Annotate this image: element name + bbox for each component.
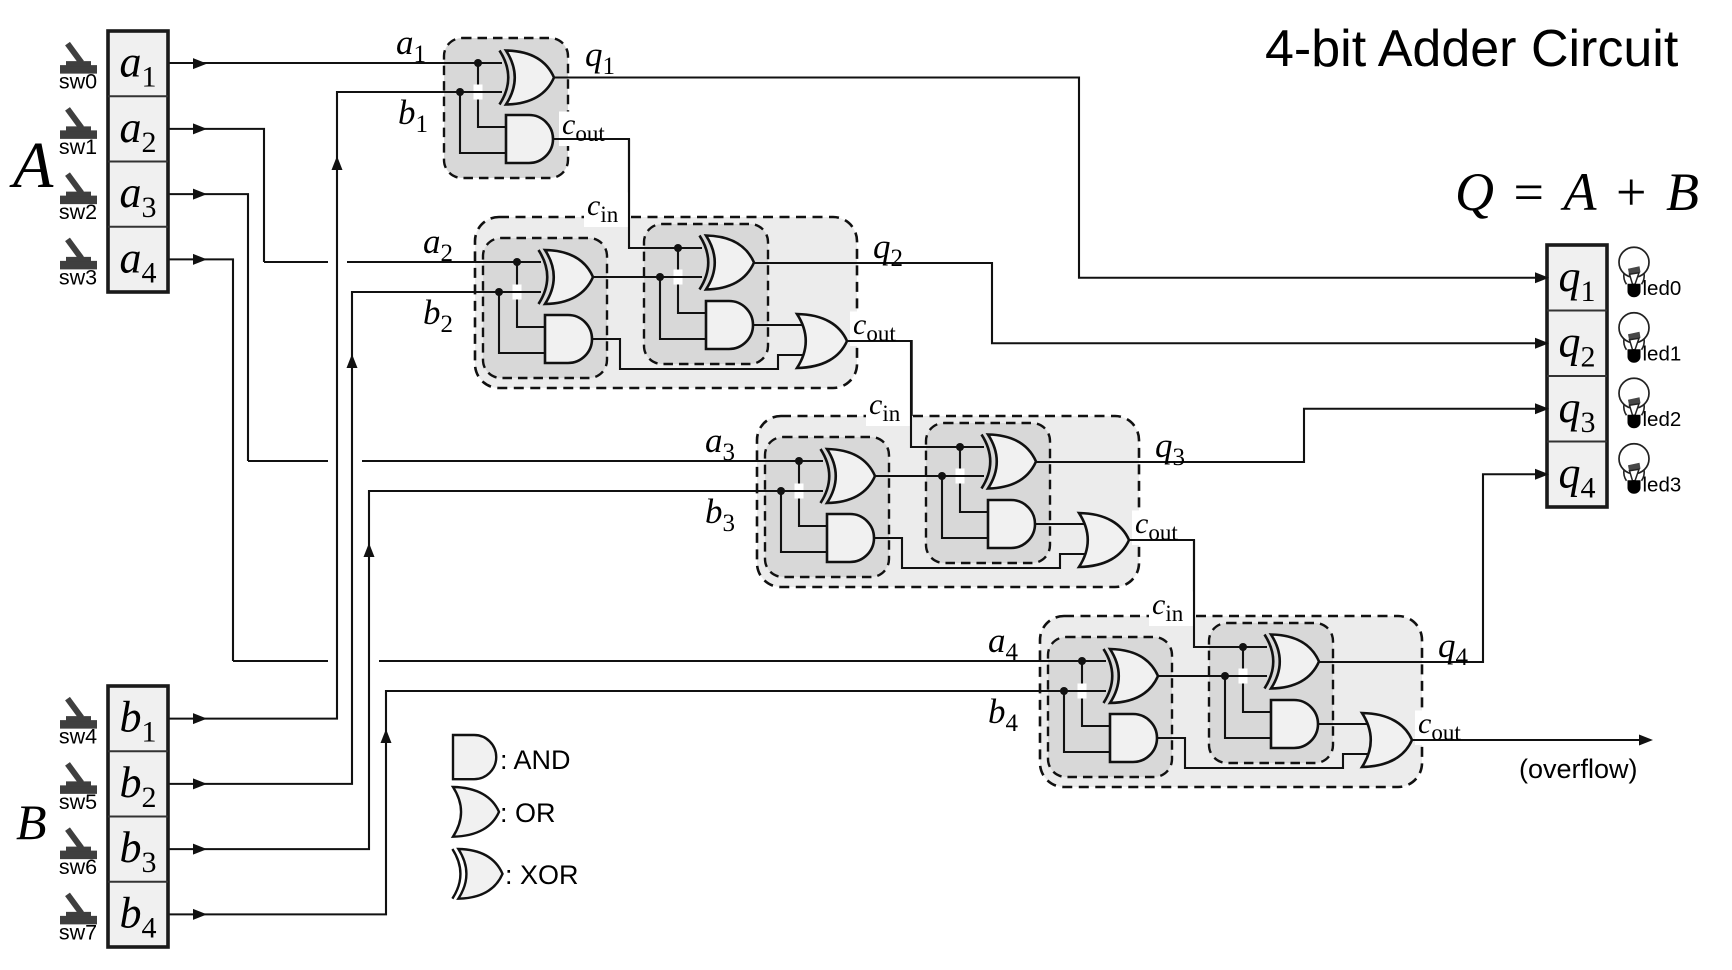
svg-text:sw2: sw2 — [59, 200, 97, 224]
svg-text:sw3: sw3 — [59, 265, 97, 289]
svg-text:: XOR: : XOR — [505, 860, 579, 890]
svg-text:B: B — [16, 794, 47, 850]
svg-text:(overflow): (overflow) — [1519, 754, 1638, 784]
svg-text:sw0: sw0 — [59, 70, 97, 94]
svg-text:: OR: : OR — [500, 798, 556, 828]
svg-text:sw5: sw5 — [59, 790, 97, 814]
svg-text:led3: led3 — [1643, 473, 1682, 496]
svg-text:led1: led1 — [1643, 342, 1682, 365]
svg-text:sw6: sw6 — [59, 855, 97, 879]
svg-text:Q = A + B: Q = A + B — [1455, 162, 1702, 222]
svg-text:sw4: sw4 — [59, 725, 97, 749]
svg-text:led0: led0 — [1643, 277, 1682, 300]
svg-text:sw7: sw7 — [59, 920, 97, 944]
svg-text:led2: led2 — [1643, 408, 1682, 431]
svg-text:A: A — [9, 129, 54, 202]
svg-text:sw1: sw1 — [59, 135, 97, 159]
svg-text:4-bit Adder Circuit: 4-bit Adder Circuit — [1265, 20, 1679, 78]
svg-text:: AND: : AND — [500, 745, 571, 775]
